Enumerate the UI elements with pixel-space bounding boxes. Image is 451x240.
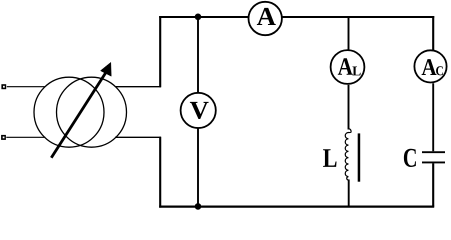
label L — [323, 149, 336, 167]
bottom rail wire — [159, 205, 434, 207]
label C — [404, 149, 416, 167]
ammeter A_L — [331, 50, 365, 84]
terminal T2 — [1, 135, 6, 140]
wire T2 to variac — [6, 136, 45, 138]
capacitor C bottom plate — [422, 161, 445, 163]
terminal T1 — [1, 84, 6, 89]
node junction top of V branch — [195, 13, 202, 20]
wire T1 to variac — [7, 86, 45, 88]
left vertical wire upper — [159, 16, 161, 87]
capacitor C top plate — [422, 151, 445, 153]
inductor core bar — [358, 133, 361, 181]
ammeter A — [249, 2, 282, 35]
node junction bottom of V branch — [195, 203, 202, 210]
left vertical wire lower — [159, 137, 161, 208]
wire variac to left vertical (bottom) — [115, 136, 161, 138]
wire inductor to bottom rail — [348, 180, 350, 207]
variac T primary circle — [34, 77, 104, 147]
wire V branch bottom — [197, 128, 199, 207]
variac adjustment arrow — [51, 62, 111, 157]
wire A_L to inductor — [348, 85, 350, 130]
wire capacitor to bottom rail — [432, 163, 434, 206]
voltmeter V — [181, 93, 216, 128]
wire A_L branch top — [348, 17, 350, 50]
variac T secondary circle — [57, 77, 127, 147]
ammeter A_C — [414, 50, 446, 82]
wire variac to left vertical (top) — [116, 86, 162, 88]
wire A_C branch top — [432, 16, 434, 50]
wire V branch top — [197, 17, 199, 93]
inductor L coil — [345, 129, 351, 181]
top rail wire — [159, 16, 434, 18]
wire A_C to capacitor — [432, 83, 434, 151]
